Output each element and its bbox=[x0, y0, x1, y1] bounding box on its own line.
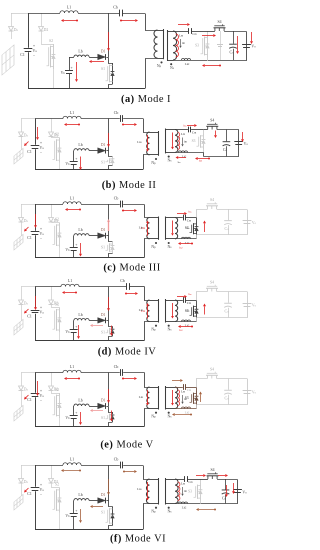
current arrow (panel e) bbox=[111, 411, 113, 419]
secondary polarity dot and Ns (panel c) bbox=[168, 242, 170, 244]
output capacitor and Vo (panel d) bbox=[243, 304, 252, 307]
svg-text:D2: D2 bbox=[44, 28, 49, 32]
wire secondary bottom (panel b) bbox=[175, 152, 204, 154]
current arrow (panel f) bbox=[199, 509, 215, 511]
capacitor C1 with Va (panel b) bbox=[31, 146, 40, 149]
capacitor Cm (panel b) bbox=[189, 127, 191, 133]
clamp capacitor grey (panel a) bbox=[220, 31, 222, 60]
svg-text:L1: L1 bbox=[70, 458, 74, 462]
svg-text:Np: Np bbox=[151, 510, 156, 514]
wire output right (panel a) bbox=[208, 32, 247, 61]
svg-text:S2: S2 bbox=[55, 302, 59, 306]
svg-text:S3: S3 bbox=[188, 489, 192, 493]
current arrow (panel b) bbox=[80, 157, 82, 168]
transformer primary winding (panel a) bbox=[154, 30, 158, 58]
svg-text:S1: S1 bbox=[101, 246, 105, 250]
capacitor C1 with Va (panel c) bbox=[31, 232, 40, 235]
diode Da (panel b) bbox=[19, 132, 24, 137]
capacitor C1 with Va (panel d) bbox=[31, 311, 40, 313]
svg-text:Vo: Vo bbox=[244, 142, 249, 146]
svg-text:Vo: Vo bbox=[252, 221, 257, 225]
wire left rail (panel d) bbox=[35, 287, 37, 310]
output capacitor and Vo (panel e) bbox=[243, 391, 252, 394]
svg-text:Lb: Lb bbox=[78, 228, 82, 232]
primary current arrow (panel f) bbox=[147, 482, 149, 498]
current arrow (panel d) bbox=[26, 309, 29, 312]
svg-text:C1: C1 bbox=[27, 492, 32, 496]
svg-text:D1: D1 bbox=[101, 143, 106, 147]
current arrow (panel b) bbox=[108, 133, 110, 144]
switch S4 (panel c) bbox=[207, 206, 216, 209]
svg-text:im: im bbox=[184, 489, 187, 493]
PV array (panel d) bbox=[14, 319, 23, 335]
current arrow (panel b) bbox=[26, 142, 29, 145]
magnetizing current im arrow (panel f) bbox=[182, 487, 184, 494]
svg-text:C1: C1 bbox=[27, 150, 32, 154]
secondary current arrow (panel b) bbox=[172, 133, 174, 147]
switch S1 (panel e) bbox=[109, 407, 113, 413]
current arrow (panel a) bbox=[202, 35, 213, 37]
wire PV to diode Da (panel a) bbox=[11, 13, 13, 27]
inductor L1 (panel b) bbox=[63, 116, 81, 118]
svg-text:Cb: Cb bbox=[113, 6, 118, 10]
inductor L1 (panel f) bbox=[63, 463, 81, 465]
capacitor Cb (panel b) bbox=[121, 115, 123, 122]
capacitor Vb (panel a) bbox=[65, 71, 73, 74]
current arrow (panel a) bbox=[121, 20, 135, 22]
diode D2 (panel c) bbox=[51, 204, 53, 218]
wire top rail (panel e) bbox=[35, 372, 63, 374]
current arrow (panel a) bbox=[178, 24, 187, 26]
switch S3 (panel e) bbox=[196, 387, 198, 391]
magnetizing inductor Lm red (panel e) bbox=[178, 390, 180, 406]
wire output top (panel a) bbox=[207, 31, 215, 33]
current arrow (panel d) bbox=[177, 296, 184, 298]
svg-text:S4: S4 bbox=[210, 468, 214, 472]
wire top rail (panel c) bbox=[35, 204, 63, 206]
svg-text:L1: L1 bbox=[70, 111, 74, 115]
leakage inductor Lk2 (panel f) bbox=[179, 502, 188, 503]
wire primary feed (panel f) bbox=[144, 466, 150, 480]
svg-text:Vo: Vo bbox=[252, 304, 257, 308]
current arrow (panel c) bbox=[68, 209, 80, 211]
svg-text:D1: D1 bbox=[101, 493, 106, 497]
diode D1 (panel c) bbox=[89, 235, 98, 237]
svg-text:im: im bbox=[187, 226, 190, 230]
svg-text:S4: S4 bbox=[210, 281, 214, 285]
svg-text:+: + bbox=[75, 509, 77, 513]
primary current arrow (panel e) bbox=[147, 390, 149, 403]
switch S2 (panel b) bbox=[52, 137, 60, 138]
svg-text:+: + bbox=[75, 411, 77, 415]
PV array (panel c) bbox=[14, 234, 23, 250]
diode D1 (panel f) bbox=[89, 500, 98, 502]
svg-text:Lb: Lb bbox=[78, 493, 82, 497]
svg-text:Lks: Lks bbox=[137, 487, 141, 491]
wire Vb branch (panel b) bbox=[73, 150, 75, 152]
wire secondary bottom (panel a) bbox=[173, 60, 207, 62]
current arrow (panel f) bbox=[124, 471, 134, 473]
wire left rail (panel f) bbox=[35, 465, 37, 487]
wire output right (panel f) bbox=[201, 480, 238, 504]
wire secondary top (panel c) bbox=[175, 217, 183, 219]
current arrow (panel b) bbox=[215, 131, 217, 136]
secondary polarity dot and Ns (panel b) bbox=[168, 156, 170, 158]
wire bottom rail (panel b) bbox=[35, 169, 143, 171]
capacitor Cm (panel f) bbox=[185, 476, 188, 482]
current arrow (panel b) bbox=[67, 124, 79, 126]
diode D1 (panel a) bbox=[89, 57, 98, 59]
svg-text:Lb: Lb bbox=[78, 49, 82, 53]
svg-text:Vo: Vo bbox=[242, 490, 247, 494]
wire secondary top (panel d) bbox=[175, 300, 183, 302]
current arrow (panel a) bbox=[108, 32, 110, 48]
wire mid branch (panel f) bbox=[108, 465, 110, 501]
transformer secondary winding (panel d) bbox=[175, 300, 178, 322]
svg-text:Lk2: Lk2 bbox=[182, 506, 187, 510]
diode D2 (panel d) bbox=[51, 287, 53, 301]
current arrow (panel f) bbox=[26, 488, 29, 491]
transformer primary winding (panel f) bbox=[146, 479, 149, 504]
svg-text:Vb: Vb bbox=[61, 71, 66, 75]
secondary polarity dot and Ns (panel d) bbox=[168, 325, 170, 327]
svg-text:Da: Da bbox=[24, 480, 29, 484]
primary polarity dot and Np (panel a) bbox=[160, 61, 162, 63]
transformer core (panel e) bbox=[158, 386, 160, 410]
svg-text:Vb: Vb bbox=[65, 514, 70, 518]
inductor Lb (panel d) bbox=[74, 319, 89, 321]
svg-text:Np: Np bbox=[151, 161, 156, 165]
svg-text:S2: S2 bbox=[55, 388, 59, 392]
capacitor Co (panel b) bbox=[226, 130, 228, 142]
svg-text:Da: Da bbox=[24, 388, 29, 392]
PV array (panel a) bbox=[2, 45, 14, 75]
svg-text:Co: Co bbox=[224, 227, 229, 231]
primary polarity dot and Np (panel f) bbox=[155, 507, 157, 509]
wire PV to diode Da (panel f) bbox=[21, 465, 23, 479]
svg-text:+: + bbox=[71, 66, 73, 70]
transformer core (panel b) bbox=[158, 131, 160, 156]
diode Da (panel f) bbox=[19, 479, 24, 484]
current arrow (panel c) bbox=[108, 222, 110, 231]
inductor Lb (panel c) bbox=[74, 234, 89, 236]
svg-text:Cb: Cb bbox=[114, 458, 119, 462]
wire bottom rail (panel a) bbox=[28, 88, 145, 90]
current arrow (panel a) bbox=[205, 65, 220, 67]
wire Vb branch (panel f) bbox=[73, 500, 75, 502]
capacitor Cm (panel d) bbox=[184, 297, 186, 303]
capacitor C1 with Va (panel f) bbox=[31, 488, 40, 491]
primary current arrow (panel b) bbox=[147, 135, 149, 149]
wire PV to diode Da (panel d) bbox=[21, 287, 23, 301]
svg-text:+: + bbox=[75, 325, 77, 329]
svg-text:S4: S4 bbox=[210, 368, 214, 372]
switch S1 (panel c) bbox=[109, 236, 113, 242]
secondary polarity dot and Ns (panel e) bbox=[168, 412, 170, 414]
switch S3 (panel d) bbox=[196, 300, 198, 304]
current arrow (panel a) bbox=[237, 36, 239, 51]
svg-text:Lm: Lm bbox=[179, 34, 183, 38]
magnetizing inductor Lm red (panel b) bbox=[178, 133, 180, 150]
switch S2 (panel e) bbox=[52, 391, 60, 394]
wire secondary top (panel b) bbox=[175, 129, 188, 131]
svg-text:Cm: Cm bbox=[192, 130, 196, 134]
svg-text:+: + bbox=[75, 243, 77, 247]
wire secondary bottom (panel e) bbox=[175, 408, 197, 410]
switch S2 (panel a) bbox=[42, 32, 54, 45]
diode D1 (panel e) bbox=[89, 406, 98, 408]
current arrow (panel e) bbox=[108, 389, 110, 400]
capacitor Cm (panel c) bbox=[184, 215, 186, 221]
switch S2 (panel d) bbox=[52, 305, 60, 308]
capacitor Cb (panel a) bbox=[120, 10, 123, 17]
current arrow (panel f) bbox=[218, 475, 225, 477]
svg-text:Vb: Vb bbox=[65, 330, 70, 334]
svg-text:C1: C1 bbox=[27, 398, 32, 402]
svg-text:L1: L1 bbox=[67, 6, 71, 10]
capacitor Vb (panel d) bbox=[70, 330, 78, 333]
switch S1 (panel a) bbox=[109, 58, 113, 64]
magnetizing current im arrow (panel e) bbox=[182, 395, 184, 402]
transformer secondary winding (panel f) bbox=[175, 479, 178, 504]
current arrow (panel f) bbox=[108, 479, 110, 492]
wire Vb branch (panel d) bbox=[73, 320, 75, 322]
svg-text:(c) Mode III: (c) Mode III bbox=[103, 263, 160, 274]
transformer secondary winding (panel b) bbox=[175, 130, 178, 153]
current arrow (panel e) bbox=[172, 380, 180, 382]
current arrow (panel d) bbox=[108, 297, 110, 308]
capacitor Vb (panel b) bbox=[70, 162, 78, 165]
svg-text:Da: Da bbox=[24, 219, 29, 223]
svg-text:Lk2: Lk2 bbox=[185, 411, 190, 415]
svg-text:(a) Mode I: (a) Mode I bbox=[121, 94, 171, 105]
svg-text:Da: Da bbox=[24, 134, 29, 138]
svg-text:Da: Da bbox=[24, 302, 29, 306]
wire mid branch (panel c) bbox=[108, 204, 110, 236]
wire Vb branch (panel a) bbox=[69, 57, 74, 59]
wire left rail (panel c) bbox=[35, 204, 37, 231]
current arrow (panel c) bbox=[80, 243, 82, 254]
svg-text:C1: C1 bbox=[20, 53, 25, 57]
diode Da (panel a) bbox=[9, 27, 14, 32]
output capacitor and Vo (panel a) bbox=[242, 45, 251, 48]
wire primary feed (panel e) bbox=[145, 373, 150, 388]
svg-text:(d) Mode IV: (d) Mode IV bbox=[98, 347, 157, 358]
current arrow (panel b) bbox=[178, 157, 186, 159]
wire top rail (panel b) bbox=[35, 118, 63, 120]
wire secondary bottom (panel c) bbox=[175, 238, 197, 240]
wire output right (panel b) bbox=[204, 130, 239, 157]
wire top rail (panel f) bbox=[35, 465, 63, 467]
transformer primary winding (panel d) bbox=[147, 300, 150, 322]
current arrow (panel e) bbox=[200, 394, 202, 402]
current arrow (panel f) bbox=[233, 483, 235, 491]
output capacitor and Vo (panel c) bbox=[243, 221, 252, 224]
current arrow (panel a) bbox=[64, 20, 77, 22]
magnetizing inductor Lm red (panel f) bbox=[178, 482, 180, 501]
switch S1 (panel b) bbox=[109, 151, 113, 157]
output capacitor and Vo (panel b) bbox=[234, 142, 243, 145]
wire mid branch (panel d) bbox=[108, 287, 110, 321]
svg-text:C1: C1 bbox=[27, 315, 32, 319]
diode D2 (panel f) bbox=[51, 465, 53, 479]
svg-text:Lb: Lb bbox=[78, 398, 82, 402]
svg-text:C1: C1 bbox=[27, 236, 32, 240]
svg-text:Cb: Cb bbox=[120, 279, 125, 283]
wire output top (panel b) bbox=[204, 129, 208, 131]
current arrow (panel b) bbox=[242, 132, 244, 139]
svg-text:Lk2: Lk2 bbox=[185, 241, 190, 245]
svg-text:Vb: Vb bbox=[65, 416, 70, 420]
current arrow (panel b) bbox=[198, 158, 209, 160]
switch S3 (panel b) bbox=[203, 130, 205, 134]
svg-text:Lks: Lks bbox=[137, 140, 141, 144]
current arrow (panel d) bbox=[126, 293, 135, 295]
svg-text:Co: Co bbox=[222, 496, 227, 500]
svg-text:Lks: Lks bbox=[139, 308, 143, 312]
PV array (panel f) bbox=[14, 494, 23, 510]
wire output right (panel c) bbox=[197, 210, 248, 235]
current arrow (panel e) bbox=[123, 378, 134, 380]
wire PV to diode Da (panel c) bbox=[21, 204, 23, 218]
current arrow (panel f) bbox=[80, 509, 82, 520]
magnetizing inductor Lm red (panel a) bbox=[176, 34, 179, 57]
diode Da (panel d) bbox=[19, 300, 24, 305]
svg-text:Vb: Vb bbox=[65, 162, 70, 166]
transformer secondary winding (panel e) bbox=[175, 387, 178, 409]
svg-text:S4: S4 bbox=[217, 20, 221, 24]
leakage inductor Lk2 (panel e) bbox=[182, 407, 191, 409]
transformer primary winding (panel c) bbox=[147, 218, 150, 239]
current arrow (panel f) bbox=[196, 475, 203, 477]
switch S3 (panel f) bbox=[200, 479, 202, 483]
switch S4 (panel d) bbox=[207, 289, 216, 292]
PV array (panel e) bbox=[14, 405, 23, 421]
secondary current arrow (panel e) bbox=[172, 390, 174, 403]
current arrow (panel c) bbox=[177, 213, 184, 215]
magnetizing current arrow in primary (panel c) bbox=[147, 223, 149, 236]
inductor L1 (panel a) bbox=[60, 11, 78, 13]
svg-text:Cb: Cb bbox=[114, 111, 119, 115]
switch S4 (panel f) bbox=[208, 476, 217, 479]
current arrow (panel c) bbox=[26, 227, 29, 230]
svg-text:S1: S1 bbox=[101, 416, 105, 420]
wire output right (panel d) bbox=[197, 292, 248, 318]
svg-text:Cm: Cm bbox=[187, 301, 191, 305]
wire primary feed (panel b) bbox=[144, 119, 150, 133]
wire secondary bottom (panel d) bbox=[175, 321, 197, 323]
current arrow (panel e) bbox=[175, 414, 191, 416]
svg-text:Cm: Cm bbox=[187, 218, 191, 222]
wire output top raised (panel e) bbox=[197, 379, 208, 388]
svg-text:iks: iks bbox=[189, 210, 192, 214]
svg-text:Cb: Cb bbox=[114, 365, 119, 369]
transformer secondary winding (panel c) bbox=[175, 218, 178, 239]
current arrow (panel d) bbox=[65, 292, 76, 294]
svg-text:Cm: Cm bbox=[187, 388, 191, 392]
inductor Lb (panel a) bbox=[74, 55, 89, 57]
svg-text:im: im bbox=[187, 309, 190, 313]
wire left rail (panel e) bbox=[35, 373, 37, 393]
svg-text:Cb: Cb bbox=[114, 197, 119, 201]
primary polarity dot and Np (panel b) bbox=[155, 158, 157, 160]
secondary polarity dot and Ns (panel f) bbox=[168, 507, 170, 509]
capacitor C1 with Va (panel e) bbox=[31, 394, 40, 397]
current arrow (panel d) bbox=[93, 325, 103, 327]
svg-text:(b) Mode II: (b) Mode II bbox=[102, 180, 157, 191]
wire output right (panel e) bbox=[197, 379, 248, 405]
svg-text:Lb: Lb bbox=[78, 143, 82, 147]
wire secondary bottom (panel f) bbox=[175, 503, 200, 505]
svg-text:im: im bbox=[178, 160, 181, 164]
wire PV to diode Da (panel b) bbox=[21, 119, 23, 133]
switch S4 (panel b) bbox=[208, 127, 217, 130]
current arrow (panel d) bbox=[111, 326, 113, 334]
svg-text:S3: S3 bbox=[195, 44, 199, 48]
capacitor Co (panel d) bbox=[228, 292, 230, 303]
capacitor Cb (panel e) bbox=[121, 369, 123, 376]
svg-text:Lm: Lm bbox=[181, 132, 185, 136]
svg-text:Cm: Cm bbox=[192, 32, 196, 36]
svg-text:im: im bbox=[184, 140, 187, 144]
svg-text:Cm: Cm bbox=[188, 480, 192, 484]
svg-text:D1: D1 bbox=[101, 49, 106, 53]
svg-text:D1: D1 bbox=[101, 398, 106, 402]
svg-text:S1: S1 bbox=[101, 330, 105, 334]
magnetizing current im arrow (panel a) bbox=[180, 39, 182, 46]
secondary polarity dot and Ns (panel a) bbox=[170, 63, 172, 65]
output capacitor and Vo (panel f) bbox=[233, 490, 242, 493]
svg-text:S1: S1 bbox=[101, 67, 105, 71]
svg-text:Np: Np bbox=[151, 245, 156, 249]
leakage inductor Lk2 (panel a) bbox=[182, 59, 191, 61]
inductor L1 (panel e) bbox=[63, 370, 81, 372]
transformer core (panel c) bbox=[158, 217, 160, 240]
wire bottom rail (panel e) bbox=[35, 426, 144, 428]
transformer secondary winding (panel a) bbox=[173, 31, 177, 60]
wire bottom rail (panel f) bbox=[35, 529, 143, 531]
transformer core (panel f) bbox=[158, 478, 160, 505]
svg-text:+: + bbox=[75, 157, 77, 161]
current arrow (panel b) bbox=[187, 125, 194, 127]
wire output top raised (panel d) bbox=[197, 292, 208, 301]
diode D2 (panel a) bbox=[41, 13, 43, 27]
wire secondary top (panel e) bbox=[175, 387, 183, 389]
inductor Lb (panel b) bbox=[74, 149, 89, 151]
wire secondary top (panel f) bbox=[175, 479, 184, 481]
diode Da (panel c) bbox=[19, 218, 24, 223]
svg-text:iks: iks bbox=[184, 124, 187, 128]
capacitor Cb (panel d) bbox=[127, 283, 130, 290]
wire primary feed (panel c) bbox=[145, 205, 150, 218]
capacitor Cb (panel f) bbox=[121, 462, 123, 469]
switch S3 (panel c) bbox=[196, 218, 198, 222]
transformer primary winding (panel e) bbox=[147, 387, 150, 409]
wire PV to diode Da (panel e) bbox=[21, 373, 23, 387]
inductor L1 (panel c) bbox=[63, 202, 81, 204]
wire bottom rail (panel d) bbox=[35, 340, 144, 342]
svg-text:S2: S2 bbox=[55, 133, 59, 137]
inductor Lb (panel e) bbox=[74, 404, 89, 406]
current arrow (panel a) bbox=[92, 61, 104, 63]
PV array (panel b) bbox=[14, 148, 23, 164]
leakage inductor Lk2 (panel d) bbox=[182, 320, 191, 322]
capacitor Vb (panel f) bbox=[70, 514, 78, 517]
switch S2 (panel f) bbox=[52, 484, 60, 488]
svg-text:Lks: Lks bbox=[139, 395, 143, 399]
current arrow (panel a) bbox=[251, 32, 253, 41]
wire secondary top (panel a) bbox=[173, 31, 188, 33]
